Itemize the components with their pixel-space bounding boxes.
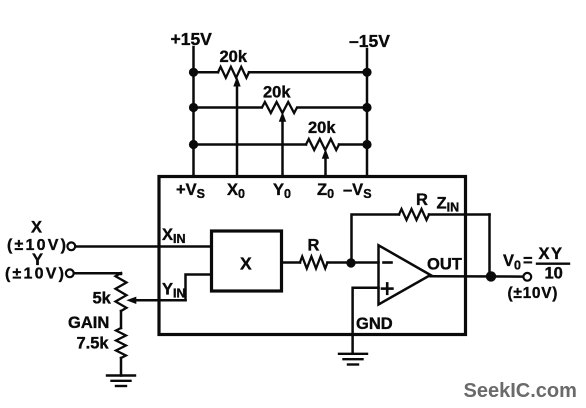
svg-text:X: X bbox=[240, 254, 252, 274]
svg-text:X: X bbox=[31, 219, 42, 237]
svg-text:20k: 20k bbox=[308, 119, 336, 137]
wire rail 3 bbox=[194, 143, 307, 146]
svg-text:GND: GND bbox=[356, 315, 393, 333]
wire op-amp + input to ground bbox=[353, 288, 379, 354]
wire pot to 7.5k bbox=[120, 311, 123, 328]
junction output node bbox=[486, 271, 496, 281]
svg-text:YIN: YIN bbox=[162, 281, 186, 301]
junction at (193.5,72.3) bbox=[189, 68, 198, 77]
svg-text:10: 10 bbox=[545, 265, 563, 283]
junction at (193.5,144.5) bbox=[189, 140, 198, 149]
svg-text:X0: X0 bbox=[227, 181, 245, 201]
svg-text:20k: 20k bbox=[263, 84, 291, 102]
junction at (367,144.5) bbox=[362, 140, 371, 149]
potentiometer R2 20k bbox=[262, 84, 297, 177]
svg-text:7.5k: 7.5k bbox=[77, 335, 110, 353]
svg-text:OUT: OUT bbox=[427, 256, 462, 274]
potentiometer R3 20k bbox=[306, 119, 339, 177]
svg-text:20k: 20k bbox=[220, 48, 248, 66]
svg-text:XIN: XIN bbox=[162, 226, 186, 246]
wire X input to multiplier bbox=[76, 245, 212, 248]
wire summing node to inverting input bbox=[351, 261, 379, 264]
wiper wire of gain pot bbox=[135, 299, 186, 302]
wire -15V lead bbox=[366, 49, 369, 177]
wire feedback top bbox=[429, 213, 490, 216]
svg-text:ZIN: ZIN bbox=[437, 195, 460, 215]
resistor R ZIN bbox=[399, 191, 459, 220]
terminal output bbox=[523, 273, 531, 281]
multiplier block X bbox=[212, 231, 282, 291]
junction at (367,107.5) bbox=[362, 103, 371, 112]
junction at (193.5,107.5) bbox=[189, 103, 198, 112]
ground (op-amp reference) bbox=[339, 354, 367, 365]
svg-text:+15V: +15V bbox=[171, 29, 213, 49]
terminal X input bbox=[67, 242, 75, 250]
svg-text:V0=: V0= bbox=[503, 252, 533, 273]
svg-text:(±10V): (±10V) bbox=[508, 285, 559, 302]
junction at (367,72.3) bbox=[362, 68, 371, 77]
svg-text:5k: 5k bbox=[93, 290, 112, 308]
node V0 output label bbox=[503, 245, 569, 302]
svg-text:R: R bbox=[308, 237, 320, 255]
wire rail 1 bbox=[194, 71, 219, 74]
svg-text:Z0: Z0 bbox=[317, 181, 334, 201]
svg-text:–15V: –15V bbox=[349, 31, 390, 51]
wire feedback vertical bbox=[488, 215, 491, 277]
wire rail 2 bbox=[194, 106, 262, 109]
wire feedback to summing node bbox=[352, 215, 400, 263]
svg-text:–VS: –VS bbox=[343, 181, 372, 201]
wire Y input to gain pot bbox=[74, 272, 121, 275]
resistor R bbox=[300, 237, 328, 269]
svg-text:+VS: +VS bbox=[176, 181, 205, 201]
svg-text:Y0: Y0 bbox=[273, 181, 291, 201]
svg-text:SeekIC.com: SeekIC.com bbox=[464, 380, 577, 402]
ground (input divider) bbox=[107, 376, 135, 387]
op-amp A1 bbox=[379, 245, 431, 304]
svg-text:R: R bbox=[416, 191, 428, 209]
svg-text:GAIN: GAIN bbox=[68, 314, 109, 332]
potentiometer R4 5k GAIN bbox=[68, 273, 127, 332]
svg-text:(±10V): (±10V) bbox=[5, 266, 66, 283]
wire R to summing node bbox=[328, 261, 352, 264]
wire op-amp output bbox=[431, 275, 524, 278]
wire 7.5k to ground bbox=[120, 358, 123, 376]
op-amp multiplier IC U1 outline bbox=[159, 177, 466, 335]
wire +15V lead bbox=[192, 47, 195, 177]
wire multiplier to R bbox=[282, 261, 301, 264]
terminal Y input bbox=[66, 269, 74, 277]
svg-text:XY: XY bbox=[539, 245, 564, 263]
potentiometer R1 20k bbox=[218, 48, 249, 177]
resistor R5 7.5k bbox=[77, 328, 127, 358]
junction summing node bbox=[346, 258, 355, 267]
wire gain pot wiper to YIN bbox=[186, 275, 212, 301]
